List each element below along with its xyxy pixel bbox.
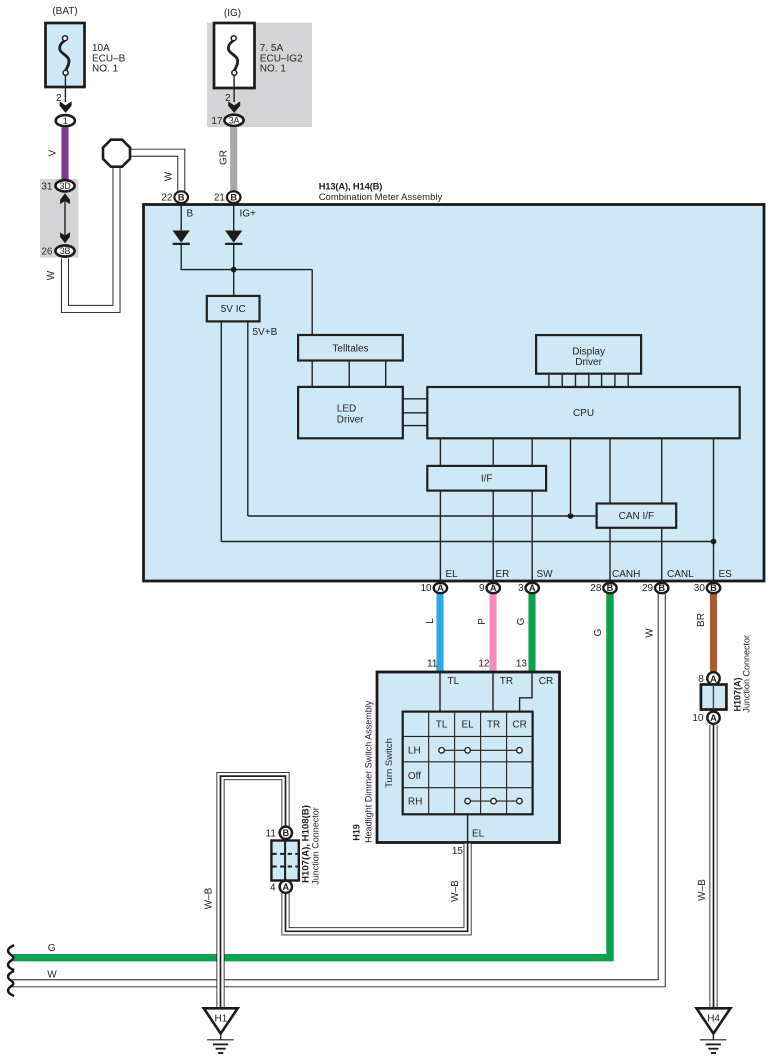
svg-text:A: A xyxy=(710,674,717,684)
svg-text:11: 11 xyxy=(427,658,438,669)
wire V (violet) node 1 to 3D xyxy=(61,128,68,180)
wire CPU to EL pin xyxy=(439,438,441,584)
meter pin 29 B xyxy=(642,583,668,594)
LH contact row xyxy=(439,748,522,754)
I/F box xyxy=(427,466,546,491)
wire label G horizontal xyxy=(48,943,56,954)
svg-text:B: B xyxy=(607,583,614,593)
display driver box xyxy=(536,335,641,374)
wire label W-B xyxy=(697,879,708,901)
wire diode D2 to 5V IC xyxy=(233,244,235,296)
svg-text:B: B xyxy=(178,193,185,203)
svg-text:W: W xyxy=(645,628,656,638)
LED driver box xyxy=(298,387,403,438)
svg-text:Off: Off xyxy=(408,771,421,782)
svg-text:G: G xyxy=(516,617,527,625)
meter pin 30 B xyxy=(694,583,720,594)
svg-text:3A: 3A xyxy=(229,115,240,125)
node 3A connector pin 17 xyxy=(211,115,243,127)
junction connector H107(A) H108(B) pin 4 A xyxy=(270,881,292,894)
internal label CR xyxy=(539,676,553,687)
meter pin 22 B xyxy=(161,191,188,203)
svg-text:Turn Switch: Turn Switch xyxy=(384,738,395,788)
wire P (pink) meter 9 to switch 12 xyxy=(489,591,496,673)
wire fuse ECU-IG2 to pin 2 xyxy=(233,76,235,102)
pin 2 (BAT fuse output) xyxy=(56,93,72,113)
svg-text:NO. 1: NO. 1 xyxy=(260,64,287,75)
wire break symbol on G trunk xyxy=(8,945,14,970)
fuse 10A ECU-B NO. 1 xyxy=(46,23,126,87)
wire G (green) meter 3 to switch 13 xyxy=(528,591,535,673)
svg-text:10: 10 xyxy=(692,713,704,724)
ground H1 xyxy=(204,1008,238,1053)
junction dot ES xyxy=(711,539,717,545)
wire CPU to ER pin xyxy=(492,438,494,584)
svg-text:Junction Connector: Junction Connector xyxy=(311,807,321,885)
svg-text:CAN I/F: CAN I/F xyxy=(619,511,655,522)
svg-text:(IG): (IG) xyxy=(224,8,241,19)
connector 3B pin 26 xyxy=(41,245,74,257)
wire label W vertical xyxy=(645,628,656,638)
svg-text:CR: CR xyxy=(539,676,553,687)
switch pin 13 xyxy=(516,658,528,669)
wire label G xyxy=(516,617,527,625)
svg-text:H13(A), H14(B): H13(A), H14(B) xyxy=(319,181,383,192)
headlight dimmer switch assembly H19 xyxy=(352,672,560,843)
junction node dot xyxy=(231,267,237,273)
svg-text:V: V xyxy=(48,149,59,156)
Telltales box xyxy=(298,335,403,361)
svg-text:Driver: Driver xyxy=(337,415,364,426)
svg-text:CR: CR xyxy=(512,720,526,731)
wire TL to contact table xyxy=(439,674,441,712)
wire label G vertical xyxy=(593,628,604,636)
svg-text:Headlight Dimmer Switch Assemb: Headlight Dimmer Switch Assembly xyxy=(363,700,373,843)
internal wire B input xyxy=(180,203,182,231)
svg-text:28: 28 xyxy=(590,583,602,594)
CPU box xyxy=(427,387,739,438)
svg-text:31: 31 xyxy=(41,181,53,192)
node 1 connector ellipse xyxy=(56,115,75,126)
wire label L xyxy=(425,618,436,624)
svg-text:H4: H4 xyxy=(707,1014,720,1025)
svg-text:Junction Connector: Junction Connector xyxy=(741,635,751,713)
node (BAT) label xyxy=(52,6,77,17)
wire break symbol on W trunk xyxy=(8,971,14,996)
svg-text:EL: EL xyxy=(446,569,459,580)
noise filter octagon xyxy=(103,140,130,167)
svg-text:SW: SW xyxy=(537,569,554,580)
svg-text:A: A xyxy=(529,583,536,593)
svg-text:L: L xyxy=(425,618,436,624)
diode D2 (IG+ input) xyxy=(225,231,242,244)
svg-text:B: B xyxy=(187,209,194,220)
svg-text:ER: ER xyxy=(496,569,510,580)
wire CPU to CAN junction xyxy=(570,438,572,516)
wire label GR xyxy=(219,150,230,165)
svg-text:(BAT): (BAT) xyxy=(52,6,77,17)
wire CPU to SW pin xyxy=(531,438,533,584)
internal label EL xyxy=(472,829,485,840)
wire W-B switch pin 15 to junction connector 4 xyxy=(286,844,468,932)
wire label V xyxy=(48,149,59,156)
svg-text:W–B: W–B xyxy=(450,880,461,902)
svg-text:LED: LED xyxy=(337,404,356,415)
internal label IG+ xyxy=(240,209,257,220)
pin 2 (IG fuse output) xyxy=(225,93,240,113)
fuse 7.5A ECU-IG2 NO. 1 xyxy=(214,23,303,88)
svg-text:B: B xyxy=(282,828,289,838)
switch pin 12 xyxy=(478,658,490,669)
wire label W-B xyxy=(450,880,461,902)
svg-text:26: 26 xyxy=(41,247,53,258)
internal label B xyxy=(187,209,194,220)
label Turn Switch xyxy=(384,738,395,788)
meter pin 28 B xyxy=(590,583,616,594)
wire CR to contact table xyxy=(520,674,532,712)
svg-text:B: B xyxy=(710,583,717,593)
svg-text:H1: H1 xyxy=(215,1014,228,1025)
wire EL table to block edge xyxy=(467,814,469,842)
svg-text:G: G xyxy=(48,943,56,954)
svg-text:W: W xyxy=(164,171,175,181)
wire 5V IC output left xyxy=(220,321,222,541)
RH contact row xyxy=(465,798,522,804)
svg-text:21: 21 xyxy=(214,193,226,204)
gray option shading around fuse ECU-IG2 xyxy=(207,23,312,127)
wire BR (brown) meter 30 to junction connector 8 xyxy=(710,591,717,672)
svg-text:Driver: Driver xyxy=(575,357,602,368)
internal wire IG+ input xyxy=(233,203,235,231)
internal label TR xyxy=(500,676,513,687)
wire TR to contact table xyxy=(492,674,494,712)
wire to ES node xyxy=(221,541,713,543)
gray option shading around connectors 3D/3B xyxy=(40,179,79,258)
wire CPU to CANH pin xyxy=(609,438,611,584)
svg-text:9: 9 xyxy=(479,583,485,594)
svg-text:B: B xyxy=(230,193,237,203)
svg-text:IG+: IG+ xyxy=(240,209,257,220)
svg-text:H19: H19 xyxy=(352,824,362,841)
wire W-B ground H1 to junction connector 11 xyxy=(221,776,286,1009)
wire W-B junction connector 10 to ground H4 xyxy=(709,725,717,1009)
svg-text:ES: ES xyxy=(719,569,733,580)
svg-text:5V IC: 5V IC xyxy=(221,304,246,315)
svg-text:B: B xyxy=(658,583,665,593)
svg-text:A: A xyxy=(437,583,444,593)
svg-text:12: 12 xyxy=(478,658,490,669)
wire 5V IC output right xyxy=(247,321,249,516)
svg-text:EL: EL xyxy=(461,720,474,731)
junction connector H107(A) H108(B) pin 11 B xyxy=(266,827,292,840)
svg-text:1: 1 xyxy=(63,116,68,126)
svg-text:13: 13 xyxy=(516,658,528,669)
svg-text:LH: LH xyxy=(408,746,421,757)
bus LED driver to CPU xyxy=(403,399,428,426)
CAN I/F box xyxy=(597,504,677,528)
svg-text:NO. 1: NO. 1 xyxy=(92,64,119,75)
wire GR (gray) 3A to meter pin 21 xyxy=(230,127,237,192)
diode D1 (B input) xyxy=(173,231,190,244)
svg-text:30: 30 xyxy=(694,583,706,594)
svg-text:W: W xyxy=(47,970,57,981)
svg-text:RH: RH xyxy=(408,796,422,807)
wire diode D1 to junction xyxy=(181,244,312,270)
junction connector H107(A) body xyxy=(701,635,752,713)
svg-text:Combination Meter Assembly: Combination Meter Assembly xyxy=(319,192,443,203)
svg-text:3B: 3B xyxy=(60,246,71,256)
svg-text:5V+B: 5V+B xyxy=(253,327,278,338)
bus display driver to CPU xyxy=(549,374,628,387)
wire W (white) CANL trunk xyxy=(12,591,662,983)
svg-text:W: W xyxy=(46,270,57,280)
svg-text:3D: 3D xyxy=(60,181,72,191)
wire CPU to ES pin xyxy=(713,438,715,584)
svg-text:G: G xyxy=(593,628,604,636)
svg-text:CANL: CANL xyxy=(667,569,694,580)
svg-text:Display: Display xyxy=(572,346,605,357)
svg-text:GR: GR xyxy=(219,150,230,165)
wire L (blue) meter 10 to switch 11 xyxy=(436,591,443,673)
5V IC box xyxy=(207,296,260,322)
svg-text:8: 8 xyxy=(698,674,704,685)
svg-text:W–B: W–B xyxy=(697,879,708,901)
svg-text:CANH: CANH xyxy=(612,569,640,580)
svg-text:BR: BR xyxy=(696,613,707,627)
wire W noise filter to meter pin 22 xyxy=(129,153,181,192)
wire fuse ECU-B to pin 2 xyxy=(64,76,66,102)
svg-text:TR: TR xyxy=(500,676,513,687)
wire label W xyxy=(46,270,57,280)
meter pin 3 A xyxy=(518,583,539,594)
wire to CAN I/F xyxy=(248,515,597,517)
wire W from 3B to noise filter xyxy=(65,166,117,309)
svg-text:I/F: I/F xyxy=(481,474,493,485)
wire label W xyxy=(164,171,175,181)
switch pin 15 xyxy=(452,846,464,857)
junction dot CAN xyxy=(568,513,574,519)
svg-text:TL: TL xyxy=(448,676,460,687)
svg-text:TL: TL xyxy=(436,720,448,731)
junction connector H107(A) pin 8 A xyxy=(698,672,719,685)
combination meter assembly block H13(A) H14(B) xyxy=(144,181,765,582)
meter pin 21 B xyxy=(214,191,241,203)
internal pin labels xyxy=(446,569,459,580)
svg-text:15: 15 xyxy=(452,846,464,857)
meter pin 9 A xyxy=(479,583,500,594)
svg-text:A: A xyxy=(490,583,497,593)
wire G (green) CANH trunk xyxy=(12,591,610,958)
wire label W-B xyxy=(204,887,215,909)
svg-text:Telltales: Telltales xyxy=(332,344,368,355)
wire junction to Telltales xyxy=(311,270,313,336)
svg-text:3: 3 xyxy=(518,583,524,594)
switch pin 11 xyxy=(427,658,438,669)
svg-text:A: A xyxy=(710,713,717,723)
ground H4 xyxy=(697,1008,731,1053)
meter pin 10 A xyxy=(420,583,447,594)
svg-text:11: 11 xyxy=(266,828,277,839)
svg-text:W–B: W–B xyxy=(204,887,215,909)
svg-text:22: 22 xyxy=(161,193,173,204)
svg-text:10: 10 xyxy=(420,583,432,594)
label 5V+B xyxy=(253,327,278,338)
wire label BR xyxy=(696,613,707,627)
svg-text:EL: EL xyxy=(472,829,485,840)
junction connector H107(A) H108(B) body xyxy=(271,805,320,885)
svg-text:CPU: CPU xyxy=(573,408,594,419)
connector 3D pin 31 xyxy=(41,180,74,192)
svg-text:29: 29 xyxy=(642,583,654,594)
node (IG) label xyxy=(224,8,241,19)
svg-text:A: A xyxy=(282,882,289,892)
bus Telltales to LED driver xyxy=(312,361,386,387)
wire label W horizontal xyxy=(47,970,57,981)
internal label TL xyxy=(448,676,460,687)
junction connector H107(A) pin 10 A xyxy=(692,712,719,725)
svg-text:17: 17 xyxy=(211,116,223,127)
svg-text:TR: TR xyxy=(487,720,500,731)
wire CPU to CANL pin xyxy=(661,438,663,584)
svg-text:P: P xyxy=(477,618,488,625)
turn switch contact table xyxy=(403,712,533,815)
wire label P xyxy=(477,618,488,625)
svg-text:4: 4 xyxy=(270,882,276,893)
double arrow 3D to 3B xyxy=(60,193,70,243)
